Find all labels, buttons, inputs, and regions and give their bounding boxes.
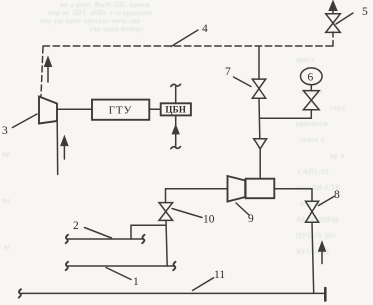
- end bar line 11: [324, 288, 327, 301]
- svg-text:11: 11: [214, 269, 225, 281]
- wire: riser continues down: [258, 98, 261, 139]
- wire: line 2 tap up and over to valve 10 line: [131, 225, 166, 239]
- wire: discharge from unit 9 to valve 8: [274, 189, 312, 201]
- label 2 leader: [85, 228, 112, 239]
- svg-text:5: 5: [362, 6, 368, 18]
- wire: dashed drop to turbine 3: [41, 47, 43, 96]
- svg-text:10: 10: [203, 214, 215, 226]
- label 10 leader: [172, 209, 202, 218]
- GTU box: [92, 100, 149, 120]
- label 8 leader: [319, 197, 335, 206]
- circle 6 actuator: [301, 68, 323, 85]
- label 3 leader: [13, 114, 38, 128]
- svg-text:8: 8: [334, 189, 340, 201]
- break squiggles line 1: [66, 262, 68, 270]
- break squiggles line 2: [66, 235, 68, 243]
- nozzle reducer triangle: [254, 139, 267, 149]
- arrow in exhaust (inside dashed corner): [45, 58, 51, 83]
- wire: valve 6 drop: [310, 110, 312, 119]
- wire: CBN suction from below: [175, 115, 177, 147]
- svg-text:3: 3: [2, 125, 8, 137]
- svg-text:ЦБН: ЦБН: [165, 104, 186, 114]
- svg-text:2: 2: [73, 220, 79, 232]
- pipe line 2: [67, 238, 144, 240]
- label 4 leader: [171, 30, 198, 47]
- svg-text:1: 1: [133, 276, 139, 288]
- pipe line 11 main gas main: [20, 292, 325, 294]
- wire: suction to unit 9 from left: [166, 189, 228, 203]
- valve 5: [326, 2, 341, 33]
- pipe line 1: [67, 265, 175, 267]
- label 5 leader: [336, 13, 353, 24]
- wire: CBN discharge up: [175, 85, 177, 103]
- label 9 leader: [236, 203, 249, 215]
- label 7 leader: [234, 77, 252, 87]
- valve 10: [159, 203, 173, 221]
- wire: dashed riser to valve 5: [332, 32, 334, 46]
- svg-text:4: 4: [202, 23, 208, 35]
- stem circle to valve 6: [310, 85, 312, 91]
- unit 9 rectangle: [246, 179, 275, 199]
- valve 8: [306, 201, 319, 222]
- svg-text:ГТУ: ГТУ: [109, 105, 133, 117]
- box texts: [109, 104, 187, 116]
- valve 7: [252, 79, 265, 98]
- flow arrow beside pipe: [319, 242, 325, 263]
- svg-text:6: 6: [308, 72, 314, 84]
- svg-text:7: 7: [225, 66, 231, 78]
- CBN box: [161, 103, 191, 115]
- arrow on suction: [173, 126, 179, 134]
- wire: bypass horizontal to riser: [260, 117, 312, 119]
- wire: main fuel riser from dashed line: [258, 46, 260, 79]
- valve 6: [303, 91, 319, 110]
- arrow on exhaust duct: [61, 137, 67, 159]
- break squiggle top: [171, 84, 181, 86]
- label 11 leader: [193, 278, 214, 291]
- wire: dashed recirculation line 4 horizontal: [43, 45, 333, 47]
- label 1 leader: [106, 268, 131, 280]
- break squiggle line 11 left: [19, 289, 21, 297]
- faint bleed-through text texture: [60, 1, 150, 9]
- unit 9 trapezoid: [228, 176, 246, 202]
- wire: turbine to GTU: [57, 108, 92, 110]
- turbine 3 trapezoid: [39, 97, 57, 124]
- break squiggle bottom: [171, 147, 181, 149]
- wire: valve 10 down to line 1: [166, 220, 167, 266]
- wire: turbine exhaust down: [56, 122, 59, 175]
- wire: valve 8 down to line 11: [312, 222, 314, 293]
- wire: into combustor: [259, 149, 261, 179]
- wire: GTU to CBN: [149, 108, 160, 110]
- svg-text:9: 9: [248, 213, 254, 225]
